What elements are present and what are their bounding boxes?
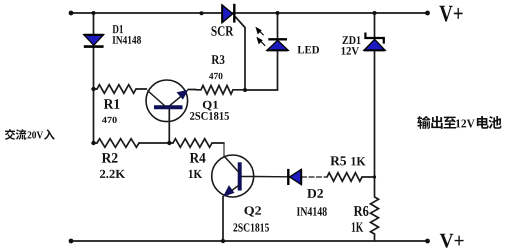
- label R4: [190, 153, 206, 163]
- label D1: [113, 25, 124, 33]
- LED light arrows: [256, 28, 265, 46]
- diode D2 IN4148: [288, 169, 301, 185]
- label 470 (R1): [102, 117, 117, 123]
- label 2.2K (R2): [100, 170, 125, 178]
- wire left vertical (D1 branch): [93, 13, 95, 143]
- wire ZD1 right vertical: [374, 13, 376, 38]
- wire Q2 emitter to bottom rail: [222, 197, 224, 242]
- node R1 left: [91, 87, 95, 91]
- resistor R2: [97, 139, 139, 148]
- wire D2 to R5: [302, 176, 328, 178]
- node AC input bottom: [69, 239, 74, 244]
- node V+ bottom terminal: [425, 239, 430, 244]
- resistor R1: [97, 85, 136, 94]
- node ZD1 branch: [373, 11, 377, 15]
- label V+ top: [439, 6, 462, 22]
- wire Q1 emitter to R3: [188, 89, 196, 91]
- resistor R5: [327, 173, 362, 182]
- label 2SC1815 (Q1): [190, 112, 229, 120]
- node R3 / gate / LED: [243, 88, 247, 92]
- wire LED branch: [277, 13, 279, 39]
- node R2 left: [91, 141, 95, 145]
- label 1K (R6): [352, 222, 363, 231]
- node LED branch: [276, 11, 280, 15]
- node D1 top junction: [92, 11, 96, 15]
- label 1K (R4): [189, 170, 202, 178]
- label V+ bottom: [440, 234, 464, 248]
- label LED: [298, 46, 319, 53]
- label IN4148 (D1): [112, 36, 141, 44]
- label IN4148 (D2): [297, 207, 327, 216]
- resistor R4: [173, 139, 212, 148]
- label ZD1: [343, 36, 361, 44]
- label Q2: [244, 206, 261, 216]
- resistor R3: [201, 86, 233, 95]
- label D2: [307, 189, 323, 198]
- label R3: [211, 55, 224, 64]
- node V+ top terminal: [425, 11, 430, 16]
- LED: [256, 28, 288, 51]
- label R5: [330, 156, 346, 165]
- zener ZD1 12V: [364, 33, 385, 51]
- wire Q2 base to D2: [254, 176, 287, 178]
- label output to 12V battery (Chinese): [417, 116, 501, 129]
- resistor R6: [371, 197, 379, 234]
- wire SCR gate: [236, 17, 246, 90]
- label Q1: [203, 101, 218, 111]
- transistor Q1 2SC1815: [146, 80, 188, 122]
- transistor Q2 2SC1815: [212, 155, 254, 197]
- wire bottom rail: [71, 240, 428, 242]
- label 12V (ZD1): [341, 47, 359, 55]
- label R1: [104, 99, 120, 109]
- wire top rail: [71, 12, 428, 14]
- label SCR: [211, 26, 233, 36]
- diode D1 IN4148: [84, 35, 104, 47]
- node Q1 base / R2 / R4: [167, 141, 171, 145]
- label 470 (R3): [209, 73, 222, 79]
- label 2SC1815 (Q2): [233, 223, 269, 231]
- node Q2 emitter / rail: [221, 239, 225, 243]
- wire R4 to Q2 collector: [223, 143, 225, 156]
- label R6: [354, 206, 369, 216]
- wire Q1 base lead: [168, 110, 170, 144]
- SCR: [222, 4, 234, 23]
- node R5 / R6: [373, 175, 376, 178]
- label 1K (R5): [351, 157, 365, 165]
- node AC input top: [69, 11, 74, 16]
- label R2: [102, 153, 118, 163]
- node before SCR: [200, 11, 204, 15]
- label AC 20V input (Chinese): [5, 129, 55, 140]
